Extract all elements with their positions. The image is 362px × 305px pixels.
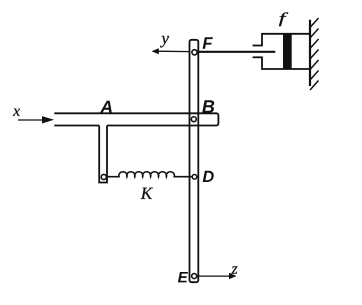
vertical bar FBDE [190, 40, 199, 282]
pivot circle F [192, 50, 197, 55]
damper rod seal flange lower [253, 56, 263, 58]
label y [160, 36, 169, 47]
spring end circle [101, 174, 106, 179]
label F [203, 37, 213, 49]
pivot circle B [191, 117, 196, 122]
damper f cylinder left wall lower [261, 57, 263, 70]
horizontal bar AB (open left end) [54, 113, 218, 125]
arrow z line [198, 275, 232, 277]
label f [279, 12, 288, 26]
label E [178, 272, 188, 282]
arrow z head [229, 273, 237, 279]
damper f cylinder top wall [262, 33, 310, 35]
label B [202, 100, 214, 112]
wall hatching [310, 18, 319, 90]
damper piston [283, 34, 292, 69]
damper rod seal flange upper [253, 45, 263, 47]
damper f cylinder left wall upper [261, 33, 263, 46]
pivot circle E [192, 274, 197, 279]
spring K [108, 172, 193, 177]
fixed wall [309, 20, 311, 86]
damper f cylinder bottom wall [262, 68, 310, 70]
link below A [99, 126, 107, 183]
pivot circle D [192, 175, 197, 180]
arrow y head [152, 48, 159, 54]
label K [141, 188, 153, 199]
label A [100, 101, 112, 113]
label D [203, 171, 214, 182]
arrow y line [157, 50, 190, 52]
arrow x line [18, 119, 43, 121]
rod from F to damper [194, 51, 275, 53]
arrow x head [42, 116, 54, 123]
label x [13, 109, 20, 116]
label z [231, 266, 237, 273]
